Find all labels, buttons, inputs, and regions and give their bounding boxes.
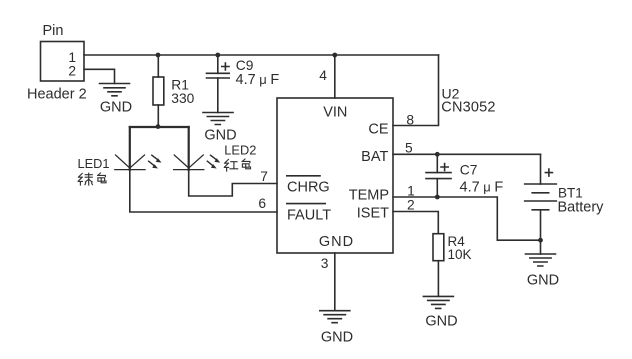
node: junction top rail / C9 <box>215 53 220 58</box>
svg-text:GND: GND <box>204 128 236 144</box>
svg-text:4.7 μ F: 4.7 μ F <box>236 72 280 88</box>
svg-text:5: 5 <box>405 141 413 156</box>
label CN3052 <box>441 100 495 116</box>
node: junction top rail / R1 <box>156 53 161 58</box>
pin name VIN <box>323 105 347 121</box>
node: junction TEMP / C7 bottom <box>435 195 440 200</box>
node: junction battery negative / TEMP rail <box>538 238 543 243</box>
svg-text:R1: R1 <box>171 77 189 92</box>
value 4.7uF (C7) <box>460 180 504 196</box>
pin 6 <box>258 196 266 211</box>
label GND (header ground) <box>100 100 132 116</box>
connector Header 2 (Pin) <box>41 42 85 82</box>
svg-text:C7: C7 <box>460 162 478 177</box>
label GND (battery ground) <box>527 273 559 289</box>
wire: TEMP pin 1 to battery negative rail <box>393 197 541 240</box>
pin name TEMP <box>349 188 389 204</box>
node: junction BAT / C7 <box>435 152 440 157</box>
svg-text:8: 8 <box>406 113 414 128</box>
wire: LED top rail (thick) <box>130 126 189 128</box>
svg-text:4: 4 <box>319 68 327 83</box>
svg-text:4.7 μ F: 4.7 μ F <box>460 180 504 196</box>
pin name ISET <box>357 205 389 221</box>
wire: CE pin 8 up to top rail <box>393 55 439 126</box>
pin 1 (TEMP) <box>407 184 415 199</box>
svg-text:1: 1 <box>407 184 415 199</box>
svg-text:Battery: Battery <box>558 200 605 216</box>
label C7 <box>460 162 478 177</box>
svg-text:BT1: BT1 <box>558 185 583 200</box>
wire: pin 4 VIN drop <box>334 55 336 98</box>
label LED1 <box>78 156 110 171</box>
label R4 <box>448 234 466 249</box>
pin 8 <box>406 113 414 128</box>
label C9 <box>236 58 254 73</box>
svg-text:GND: GND <box>321 330 353 346</box>
pin name FAULT (active low) <box>287 208 331 224</box>
pin name CHRG (active low) <box>287 180 330 196</box>
label LED2 <box>224 143 256 158</box>
label 绿色 (green, drawn strokes) <box>78 173 106 185</box>
label BT1 <box>558 185 583 200</box>
value 10K <box>448 247 472 262</box>
wire: IC GND pin 3 down <box>334 253 336 311</box>
svg-text:GND: GND <box>319 234 354 250</box>
pin name GND (IC) <box>319 234 354 250</box>
wire: ISET pin 2 to R4 <box>393 212 438 234</box>
svg-text:GND: GND <box>425 314 457 330</box>
svg-text:CHRG: CHRG <box>287 180 330 196</box>
svg-text:CN3052: CN3052 <box>441 100 495 116</box>
pin 2 (ISET) <box>407 197 415 212</box>
svg-text:3: 3 <box>321 256 329 271</box>
svg-text:330: 330 <box>171 91 194 106</box>
pin 7 <box>260 169 268 184</box>
svg-text:LED2: LED2 <box>224 143 256 158</box>
pin 1 (header) <box>68 50 76 65</box>
svg-text:2: 2 <box>407 197 415 212</box>
label GND (IC ground) <box>321 330 353 346</box>
label R1 <box>171 77 189 92</box>
svg-text:6: 6 <box>258 196 266 211</box>
battery BT1 <box>525 154 557 254</box>
label GND (C9 ground) <box>204 128 236 144</box>
wire: LED1 anode drop (thick) <box>129 127 131 170</box>
LED2 emission arrows <box>207 155 216 166</box>
svg-text:LED1: LED1 <box>78 156 110 171</box>
wire: header pin1 to VIN/CE top rail <box>84 54 439 56</box>
ground (R4) <box>423 296 453 308</box>
wire: LED2 anode drop (thick) <box>188 127 190 170</box>
label Pin <box>43 23 64 39</box>
ground (header) <box>100 84 130 96</box>
LED LED1 <box>115 155 145 170</box>
label 红色 (red, drawn strokes) <box>224 159 250 171</box>
pin name CE <box>368 122 388 138</box>
svg-text:VIN: VIN <box>323 105 347 121</box>
svg-text:Header 2: Header 2 <box>27 87 87 103</box>
capacitor C7 <box>426 154 451 197</box>
svg-text:2: 2 <box>68 63 76 78</box>
capacitor C9 <box>207 55 230 113</box>
pin name BAT <box>361 149 388 165</box>
svg-text:BAT: BAT <box>361 149 388 165</box>
svg-text:GND: GND <box>100 100 132 116</box>
pin 4 <box>319 68 327 83</box>
resistor R4 <box>433 234 444 297</box>
label Battery <box>558 200 605 216</box>
svg-text:ISET: ISET <box>357 205 389 221</box>
label GND (R4 ground) <box>425 314 457 330</box>
svg-text:Pin: Pin <box>43 23 64 39</box>
wire: LED2 cathode to CHRG (pin 7), stepped <box>189 170 277 196</box>
svg-text:C9: C9 <box>236 58 254 73</box>
node: junction R1 bottom / LED rail <box>156 124 161 129</box>
pin 5 <box>405 141 413 156</box>
pin 2 (header) <box>68 63 76 78</box>
ground (C9) <box>203 113 233 125</box>
wire: LED1 cathode to FAULT (pin 6) <box>130 170 277 212</box>
svg-text:FAULT: FAULT <box>287 208 331 224</box>
node: junction top rail / pin4 <box>332 53 337 58</box>
svg-text:GND: GND <box>527 273 559 289</box>
svg-text:7: 7 <box>260 169 268 184</box>
ground (IC pin 3) <box>320 311 350 323</box>
resistor R1 <box>153 55 164 127</box>
IC U2 CN3052 body <box>277 98 393 253</box>
LED1 emission arrows <box>149 155 158 166</box>
LED LED2 <box>174 155 204 170</box>
wire: BAT pin 5 to battery <box>393 153 541 155</box>
label U2 <box>442 85 460 101</box>
svg-text:10K: 10K <box>448 247 472 262</box>
svg-text:CE: CE <box>368 122 388 138</box>
value 4.7uF <box>236 72 280 88</box>
value 330 <box>171 91 194 106</box>
pin 3 <box>321 256 329 271</box>
wire: header pin2 to GND <box>84 69 115 83</box>
ground (battery) <box>526 254 556 266</box>
svg-text:TEMP: TEMP <box>349 188 389 204</box>
label Header 2 <box>27 87 87 103</box>
